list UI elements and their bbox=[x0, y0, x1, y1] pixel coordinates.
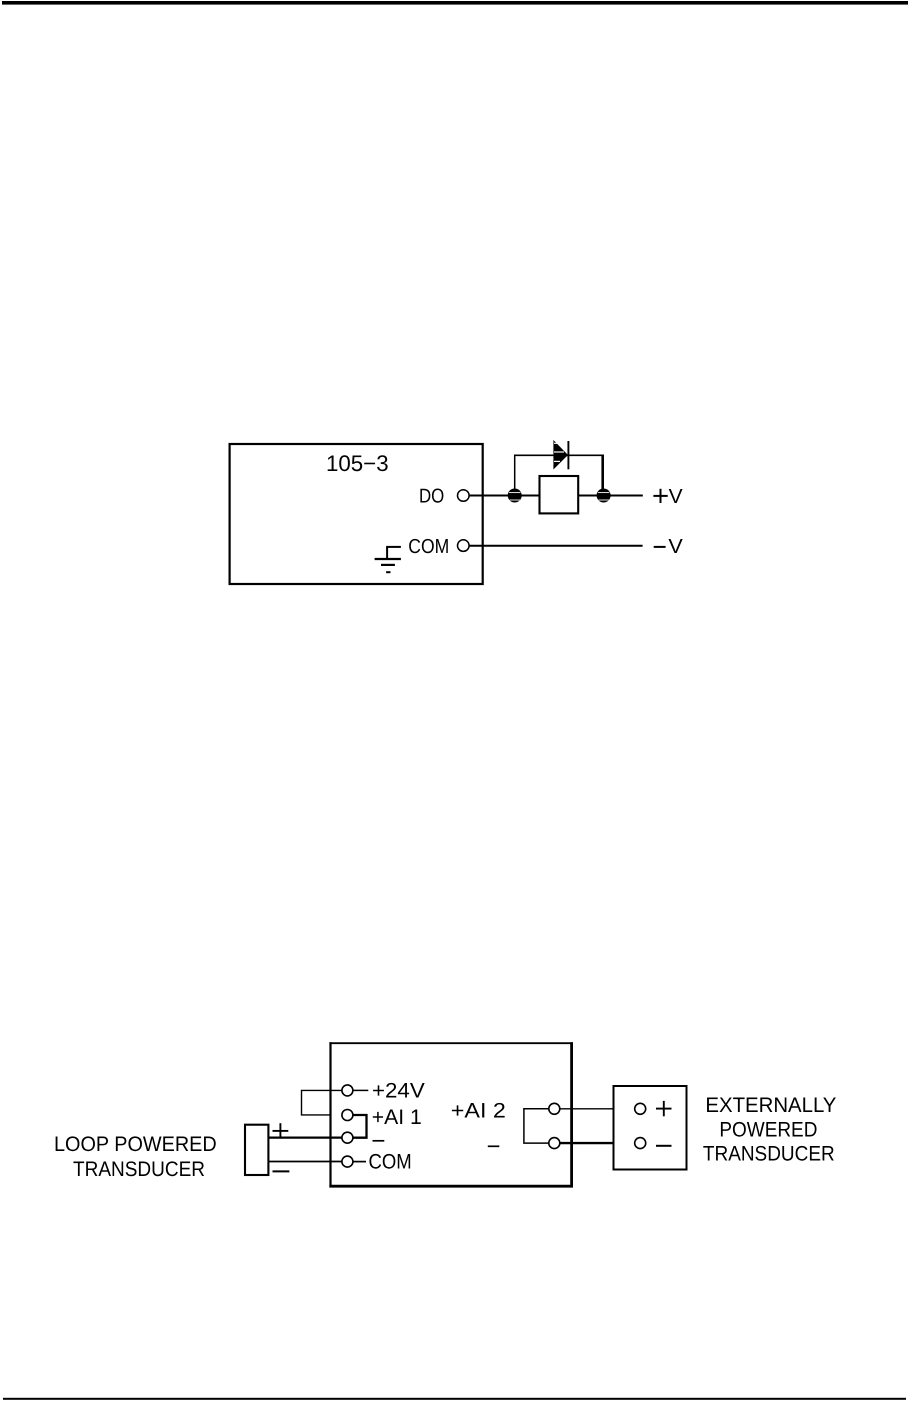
wire AI2 minus to ext minus bbox=[560, 1142, 635, 1144]
svg-text:V: V bbox=[668, 536, 683, 558]
terminal COM bbox=[458, 540, 470, 552]
header rule bbox=[2, 1, 908, 5]
module box bottom bbox=[329, 1042, 573, 1187]
svg-text:+24V: +24V bbox=[372, 1080, 425, 1103]
suppressor box bbox=[540, 476, 579, 513]
module box 105-3 bbox=[230, 444, 483, 584]
svg-text:DO: DO bbox=[419, 485, 444, 507]
terminal COM bottom bbox=[342, 1156, 353, 1167]
bypass loop wire bbox=[514, 455, 604, 493]
wire transducer minus to COM bbox=[268, 1161, 342, 1163]
label plus ext bbox=[656, 1101, 672, 1116]
diode D1 bbox=[553, 440, 568, 470]
label minus ext bbox=[656, 1145, 672, 1147]
label -V bbox=[654, 536, 684, 558]
label AI1 minus bbox=[373, 1140, 385, 1142]
label minus transducer bbox=[273, 1170, 290, 1172]
junction dot right bbox=[597, 489, 611, 503]
stub COM bottom bbox=[353, 1161, 366, 1163]
svg-text:TRANSDUCER: TRANSDUCER bbox=[73, 1158, 205, 1181]
junction dot left bbox=[508, 489, 522, 503]
wire transducer plus to AI1 minus bbox=[268, 1136, 342, 1138]
jumper AI2 bbox=[524, 1109, 549, 1143]
svg-text:LOOP POWERED: LOOP POWERED bbox=[54, 1133, 217, 1156]
stub +24V bbox=[353, 1089, 368, 1091]
wire DO to +V bbox=[469, 495, 643, 497]
wire COM to -V bbox=[469, 545, 642, 547]
svg-text:105−3: 105−3 bbox=[326, 451, 389, 476]
svg-text:TRANSDUCER: TRANSDUCER bbox=[703, 1143, 835, 1166]
svg-text:POWERED: POWERED bbox=[719, 1118, 817, 1141]
external transducer box bbox=[614, 1086, 687, 1170]
svg-text:COM: COM bbox=[369, 1151, 412, 1174]
label AI2 minus bbox=[488, 1145, 500, 1147]
terminal DO bbox=[458, 490, 470, 502]
terminal +AI1 bbox=[342, 1110, 353, 1121]
wire +AI2 to ext plus bbox=[560, 1108, 635, 1110]
terminal ext minus bbox=[635, 1138, 646, 1149]
footer rule bbox=[3, 1398, 906, 1400]
label +V bbox=[653, 486, 683, 508]
svg-text:+AI 1: +AI 1 bbox=[372, 1106, 422, 1129]
label plus transducer bbox=[273, 1123, 289, 1138]
terminal AI2 minus bbox=[549, 1138, 560, 1149]
svg-text:V: V bbox=[669, 486, 683, 508]
terminal ext plus bbox=[635, 1103, 646, 1114]
jumper +AI1 to AI1 minus bbox=[353, 1115, 367, 1138]
svg-text:COM: COM bbox=[408, 536, 449, 558]
svg-text:+AI 2: +AI 2 bbox=[451, 1100, 506, 1123]
svg-text:EXTERNALLY: EXTERNALLY bbox=[705, 1094, 836, 1117]
loop transducer body bbox=[245, 1125, 268, 1175]
terminal +24V bbox=[342, 1085, 353, 1096]
ground symbol bbox=[375, 547, 401, 572]
terminal AI1 minus bbox=[342, 1132, 353, 1143]
jumper +24V to +AI1 bbox=[302, 1090, 342, 1115]
terminal +AI2 bbox=[549, 1103, 560, 1114]
